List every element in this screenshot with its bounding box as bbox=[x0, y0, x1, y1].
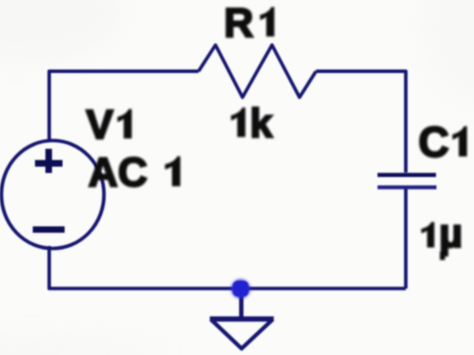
svg-text:AC: AC bbox=[88, 149, 147, 195]
digit 1 of V1 bbox=[117, 109, 131, 139]
faint corner tints (video compression shading) bbox=[0, 0, 125, 65]
V1 minus sign bbox=[33, 226, 65, 232]
digit 1 of C1 bbox=[452, 126, 467, 156]
V1 plus sign bbox=[35, 149, 63, 173]
digit 1 of AC 1 bbox=[165, 156, 180, 186]
wire: bottom rail bbox=[49, 246, 406, 289]
digit 1 of 1µ bbox=[421, 222, 434, 248]
digit 1 of R1 bbox=[260, 7, 274, 37]
svg-text:µ: µ bbox=[439, 210, 463, 256]
node: junction dot bbox=[233, 281, 248, 296]
ground symbol (triangle) bbox=[210, 316, 274, 321]
svg-text:k: k bbox=[250, 100, 273, 146]
wire: resistor to top-right corner down to capacitor bbox=[316, 71, 406, 172]
wire: ground stem bbox=[239, 293, 243, 318]
digit 1 of 1k bbox=[231, 108, 245, 138]
svg-text:V: V bbox=[86, 102, 114, 148]
ground triangle sides bbox=[211, 320, 273, 349]
capacitor C1 top plate bbox=[378, 173, 437, 177]
svg-text:C: C bbox=[418, 120, 449, 167]
wire: left vertical + top-left corner to resistor bbox=[49, 71, 198, 141]
node: junction dot glow bbox=[231, 280, 250, 299]
voltage source V1 (circle) bbox=[1, 141, 104, 249]
svg-text:R: R bbox=[224, 0, 254, 46]
resistor R1 (zigzag body) bbox=[199, 45, 317, 97]
wire: capacitor to bottom-right corner bbox=[404, 189, 408, 289]
capacitor C1 bottom plate bbox=[378, 185, 437, 189]
value label 1µ (µ descender tail) bbox=[440, 252, 444, 260]
